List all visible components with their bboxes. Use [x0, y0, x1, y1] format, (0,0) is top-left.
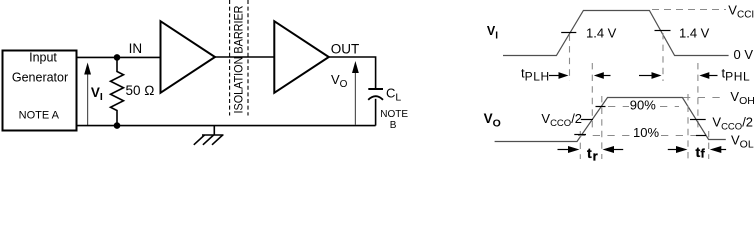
dashed line tf start (90% falling)	[687, 94, 689, 159]
svg-text:50 Ω: 50 Ω	[126, 83, 155, 98]
tPLH right arrow	[594, 72, 611, 79]
tPHL right arrow	[699, 72, 717, 79]
1.4V tick (falling edge)	[655, 30, 671, 32]
tPLH left arrow	[549, 72, 569, 79]
VCCI dashed level line	[652, 9, 726, 11]
VCCO/2 tick (rising edge)	[581, 119, 593, 121]
node IN junction dot (top)	[114, 54, 121, 61]
svg-text:tr: tr	[587, 145, 598, 162]
90% dashed level line	[608, 106, 679, 108]
buffer amplifier A2	[274, 21, 329, 93]
svg-text:1.4 V: 1.4 V	[586, 25, 617, 40]
VI waveform trace	[503, 11, 729, 56]
VI arrow (schematic)	[84, 63, 91, 126]
10% tick (falling edge)	[696, 135, 706, 137]
svg-text:NOTE: NOTE	[380, 109, 408, 120]
tf left arrow	[668, 146, 688, 153]
dashed line tr end (90% rising)	[601, 96, 603, 159]
VOH dashed level line	[683, 97, 721, 99]
10% dashed level line	[578, 135, 705, 137]
svg-text:Input: Input	[29, 51, 57, 65]
tr left arrow	[558, 146, 580, 153]
wire A2 output to OUT / capacitor	[329, 57, 376, 89]
svg-text:tf: tf	[696, 144, 706, 161]
90% tick (rising edge)	[596, 106, 606, 108]
dashed line VI falling crossing	[662, 33, 664, 81]
ground	[194, 126, 224, 145]
svg-text:Generator: Generator	[12, 71, 68, 85]
svg-text:1.4 V: 1.4 V	[679, 25, 710, 40]
dashed line VI rising crossing	[569, 35, 571, 82]
svg-text:NOTE A: NOTE A	[19, 110, 60, 122]
dashed line tf end (10% falling)	[708, 131, 710, 159]
wire A1 output to A2 input (through barrier)	[215, 56, 274, 58]
resistor 50 ohm	[111, 57, 124, 125]
tr right arrow	[603, 146, 624, 153]
wire from generator to IN node	[77, 56, 161, 58]
VCCO/2 tick (falling edge)	[690, 119, 706, 121]
node junction dot (bottom of resistor)	[114, 122, 121, 129]
label NOTE B	[380, 109, 408, 131]
svg-text:0 V: 0 V	[734, 47, 754, 62]
VO arrow (schematic)	[352, 61, 359, 125]
svg-text:B: B	[390, 120, 397, 131]
input generator box	[3, 51, 77, 131]
capacitor CL	[368, 89, 383, 126]
tf right arrow	[710, 146, 726, 153]
1.4V tick (rising edge)	[561, 32, 576, 34]
svg-text:ISOLATION BARRIER: ISOLATION BARRIER	[232, 5, 246, 113]
svg-text:OUT: OUT	[331, 41, 360, 56]
svg-text:90%: 90%	[630, 98, 656, 113]
dashed line VO falling 50%	[697, 63, 699, 129]
svg-text:IN: IN	[129, 41, 143, 56]
dashed line tr start (10% rising)	[579, 131, 581, 159]
bottom wire (ground rail)	[77, 125, 376, 127]
10% tick (rising edge)	[574, 134, 586, 136]
svg-text:10%: 10%	[633, 125, 659, 140]
VO waveform trace	[495, 98, 726, 142]
isolation barrier	[230, 0, 248, 116]
tPHL left arrow	[639, 72, 662, 79]
dashed line VO rising 50%	[591, 63, 593, 129]
buffer amplifier A1	[161, 21, 216, 93]
